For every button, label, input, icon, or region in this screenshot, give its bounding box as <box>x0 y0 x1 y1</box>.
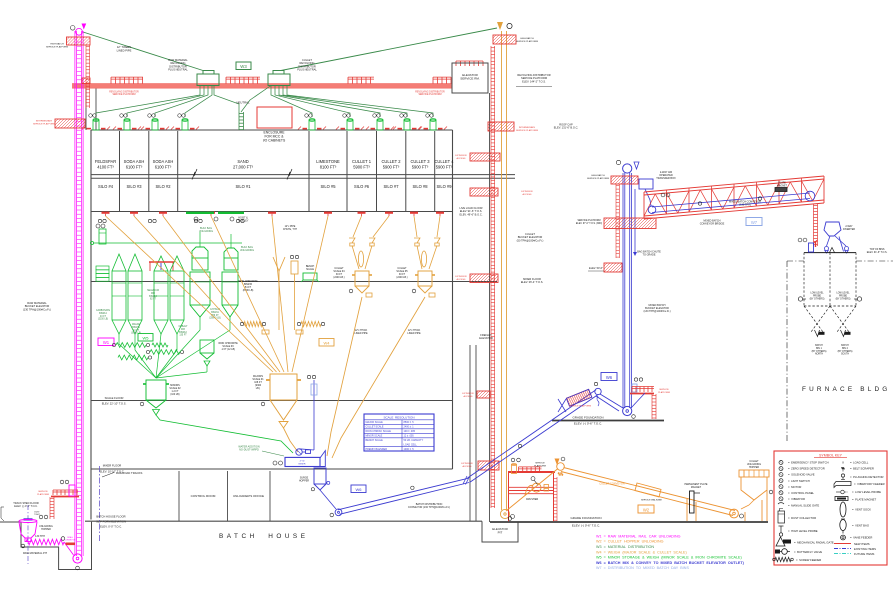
svg-text:2400 ± .1: 2400 ± .1 <box>404 426 415 429</box>
silo bin vent filters <box>93 120 99 130</box>
svg-text:(BY OTHERS): (BY OTHERS) <box>812 351 827 353</box>
head chute to elevator boot <box>600 394 623 408</box>
svg-text:PLUS NEUTRAL: PLUS NEUTRAL <box>168 68 188 72</box>
svg-text:CONVEYOR: CONVEYOR <box>65 540 76 542</box>
grade line at cullet conveyor <box>490 521 768 523</box>
12in pipe from cullet elevator <box>281 28 497 71</box>
svg-text:SERVICE: SERVICE <box>38 491 48 493</box>
conveyor service walkway <box>635 483 661 497</box>
minor bin 11 welfe <box>128 254 142 271</box>
svg-text:= VIBRATOR: = VIBRATOR <box>788 497 805 501</box>
svg-text:LIMESTONE: LIMESTONE <box>316 159 340 164</box>
vent sock on cullet scale 4 <box>358 251 363 267</box>
elevator service platform 97ft <box>604 218 656 229</box>
svg-text:SERVICE PLATFORM: SERVICE PLATFORM <box>418 93 441 96</box>
surge hopper <box>314 468 326 484</box>
svg-text:HIGH BATCH: HIGH BATCH <box>520 37 534 40</box>
iron chromite bin 15 from bulk bag 2 <box>222 272 238 305</box>
raw distributor chute fan <box>96 86 239 118</box>
svg-text:MAGNET: MAGNET <box>777 184 788 187</box>
svg-text:HIGH BATCH: HIGH BATCH <box>50 43 64 46</box>
svg-text:SERVICE PLATFORM: SERVICE PLATFORM <box>516 129 538 132</box>
svg-text:MIX: MIX <box>181 329 186 331</box>
unloading hopper <box>19 520 37 523</box>
svg-text:= EMERGENCY STOP SWITCH: = EMERGENCY STOP SWITCH <box>788 461 829 465</box>
svg-text:PROBE: PROBE <box>839 295 848 297</box>
svg-text:SILO #8: SILO #8 <box>412 184 428 189</box>
svg-text:SODA ASH: SODA ASH <box>124 159 145 164</box>
svg-text:= VENT SOCK: = VENT SOCK <box>852 508 871 512</box>
svg-text:SCALE: SCALE <box>306 268 314 271</box>
svg-text:SLIP FORM ELEVATION: SLIP FORM ELEVATION <box>96 520 126 524</box>
svg-text:TO GRADE: TO GRADE <box>642 254 655 257</box>
control room walls <box>178 471 180 521</box>
svg-text:BIN 1: BIN 1 <box>816 348 822 350</box>
svg-text:W4 = WEIGH (MAJOR SCALE &: W4 = WEIGH (MAJOR SCALE & CULLET SCALE) <box>596 550 687 554</box>
grade line at mixed batch elevator <box>552 420 664 422</box>
svg-text:= SCREW FEEDER: = SCREW FEEDER <box>796 558 821 562</box>
svg-text:= BELT SCRAPER: = BELT SCRAPER <box>850 467 874 471</box>
svg-text:HIGH BATCH: HIGH BATCH <box>591 174 605 177</box>
bulk bag monorail <box>186 212 214 214</box>
svg-text:BIN#11: BIN#11 <box>211 312 219 314</box>
W7 distribution tag <box>746 218 762 226</box>
svg-text:CARBONATE: CARBONATE <box>96 309 111 312</box>
svg-text:CHUTE, TYP: CHUTE, TYP <box>283 228 298 231</box>
svg-text:(BY OTHERS): (BY OTHERS) <box>810 298 825 300</box>
svg-text:BIN#13: BIN#13 <box>149 296 157 298</box>
mixed batch conveyor bridge truss <box>644 176 824 219</box>
svg-text:SCALE FLOOR: SCALE FLOOR <box>105 396 124 400</box>
svg-text:I/O CABINETS: I/O CABINETS <box>263 139 286 143</box>
svg-text:W3 = MATERIAL DISTRIBUTION: W3 = MATERIAL DISTRIBUTION <box>596 545 654 549</box>
svg-text:UNLOADING: UNLOADING <box>39 525 53 528</box>
svg-text:(130 TPH@100#/Cu.Ft.): (130 TPH@100#/Cu.Ft.) <box>23 307 51 311</box>
svg-text:LINED PIPE: LINED PIPE <box>354 332 368 335</box>
revolving distributor service platform band <box>72 84 452 89</box>
svg-text:(BY OTHERS): (BY OTHERS) <box>836 298 851 300</box>
svg-text:= VIBRATORY FEEDER: = VIBRATORY FEEDER <box>854 482 885 486</box>
silo outlet slide gates <box>102 213 445 216</box>
surge cylinder <box>291 261 298 274</box>
diverter chute into bin 2 <box>839 237 844 252</box>
svg-text:PREMIX BLENDER: PREMIX BLENDER <box>366 448 388 451</box>
crusher chute to elevator boot <box>506 469 558 512</box>
svg-text:CULLET CONVEYOR: CULLET CONVEYOR <box>599 482 625 486</box>
svg-text:BIN#11: BIN#11 <box>132 327 140 329</box>
batch bin hoppers dashed <box>804 306 823 332</box>
svg-text:SERVICE: SERVICE <box>659 389 669 391</box>
svg-text:SODA ASH: SODA ASH <box>153 159 174 164</box>
svg-text:ELEV. (-) 0'-6" T.O.C.: ELEV. (-) 0'-6" T.O.C. <box>14 505 38 508</box>
svg-text:SILO #3: SILO #3 <box>126 184 142 189</box>
east wall at cullet elevator <box>489 93 491 522</box>
svg-text:MIX: MIX <box>151 293 156 295</box>
svg-text:ACCESS: ACCESS <box>457 157 467 160</box>
svg-text:8100 FT³: 8100 FT³ <box>320 165 337 170</box>
svg-text:W4: W4 <box>324 340 331 345</box>
majors discharge to mixer <box>284 428 299 452</box>
minor feed lines to scale <box>119 330 230 378</box>
svg-text:EXTERIOR: EXTERIOR <box>455 276 467 278</box>
svg-text:RAW MATERIAL PIT: RAW MATERIAL PIT <box>23 551 48 555</box>
batch distribution conveyor steep flight <box>468 390 597 478</box>
elevator pit outline <box>482 521 518 542</box>
cullet conveyor legs <box>686 499 688 521</box>
svg-text:EXTERIOR: EXTERIOR <box>462 393 474 395</box>
bulk bag unloader 1 <box>192 247 208 258</box>
svg-text:SOUTH: SOUTH <box>841 354 849 356</box>
conveyor head drive <box>566 389 591 406</box>
svg-text:SERVICE PLATFORM: SERVICE PLATFORM <box>516 40 538 43</box>
svg-text:ELEV. 91'-6" T.O.S.: ELEV. 91'-6" T.O.S. <box>867 251 888 254</box>
svg-text:ELEV. 50'-6": ELEV. 50'-6" <box>589 267 603 270</box>
svg-text:5900 FT³: 5900 FT³ <box>436 165 453 170</box>
svg-text:ELEV. (-) 0'-6" T.O.C.: ELEV. (-) 0'-6" T.O.C. <box>572 524 600 528</box>
svg-text:= VENT BAG: = VENT BAG <box>852 524 869 528</box>
batch house building outline and floors <box>85 88 515 521</box>
svg-text:(130 TPH): (130 TPH) <box>739 204 751 207</box>
cullet scale 4 <box>355 271 369 286</box>
svg-text:= MECHANICAL RADIAL GATE: = MECHANICAL RADIAL GATE <box>794 541 834 545</box>
svg-text:X: X <box>842 461 844 465</box>
svg-text:100 ± .005: 100 ± .005 <box>404 430 416 433</box>
svg-text:SERVICE PLATFORM: SERVICE PLATFORM <box>46 45 68 48</box>
batch distribution conveyor shallow flight <box>320 490 336 509</box>
svg-text:W2 = CULLET HOPPER UNLOADI: W2 = CULLET HOPPER UNLOADING <box>596 540 664 544</box>
elevator service room <box>452 63 488 93</box>
blue probe cylinder at bin top <box>809 243 814 252</box>
svg-text:W7: W7 <box>751 220 758 225</box>
svg-text:PLATFORM: PLATFORM <box>37 493 49 496</box>
svg-text:WELFE: WELFE <box>132 324 140 326</box>
cullet scale discharge pipes <box>327 297 362 456</box>
W4 weigh tag <box>319 339 334 347</box>
dust collection header <box>93 242 242 244</box>
svg-text:6100 FT³: 6100 FT³ <box>155 165 172 170</box>
bin vibratory feeders <box>815 330 820 337</box>
vent bags at bin tops <box>825 247 829 251</box>
svg-text:ELEV. 22'-10" T.O.S.: ELEV. 22'-10" T.O.S. <box>102 401 127 405</box>
W3 material distribution tag <box>236 62 251 70</box>
cullet conveyor belt <box>564 468 736 511</box>
work phase notes <box>596 534 745 570</box>
freight elevator shaft walls <box>469 345 471 521</box>
svg-text:ACCESS: ACCESS <box>463 465 473 468</box>
svg-text:W5: W5 <box>143 335 150 340</box>
svg-text:43 FT: 43 FT <box>133 330 140 332</box>
svg-text:SCALE RESOLUTION: SCALE RESOLUTION <box>383 416 414 420</box>
svg-text:PROBE: PROBE <box>813 295 822 297</box>
svg-text:GYPSUM: GYPSUM <box>210 309 220 311</box>
high batch service platform on elevator <box>611 176 638 184</box>
cullet elevator service ladder <box>490 46 492 508</box>
live load floor break marks <box>192 169 197 180</box>
svg-text:ELEVATOR: ELEVATOR <box>479 336 493 340</box>
M5 minors tag <box>138 334 153 342</box>
svg-text:TRANSFER BOX: TRANSFER BOX <box>656 177 676 180</box>
cullet bucket elevator chute <box>501 31 503 510</box>
svg-text:= CONTROL PANEL: = CONTROL PANEL <box>788 491 815 495</box>
svg-text:1000 ± .5: 1000 ± .5 <box>404 448 415 451</box>
svg-text:CRUSHER: CRUSHER <box>526 498 539 501</box>
svg-text:LINED PIPE: LINED PIPE <box>117 48 132 52</box>
svg-text:MIXER FLOOR: MIXER FLOOR <box>103 464 122 468</box>
svg-text:MAGNET: MAGNET <box>691 486 702 489</box>
dust collector <box>99 229 106 244</box>
boot service platform <box>632 386 654 388</box>
svg-text:CONVEYOR BRIDGE: CONVEYOR BRIDGE <box>700 223 725 226</box>
svg-text:62 FT: 62 FT <box>150 299 157 301</box>
2-way air operated transfer box <box>639 179 653 189</box>
gypsum bin from bulk bag 1 <box>190 272 210 305</box>
bellows stack <box>96 266 109 281</box>
crusher <box>532 483 541 492</box>
cullet distributor chute fan <box>241 86 433 118</box>
svg-text:TIGHT: TIGHT <box>34 514 41 516</box>
bin section lines <box>112 282 126 284</box>
svg-text:.1 FT (12 LB): .1 FT (12 LB) <box>221 348 235 351</box>
major screw feeders <box>244 321 262 326</box>
svg-text:PLUS NEUTRAL: PLUS NEUTRAL <box>297 68 317 72</box>
dust cylinder on crusher platform <box>512 465 517 474</box>
platform railings <box>111 76 143 78</box>
bin top inlet triangle <box>830 248 835 253</box>
svg-text:EXTERIOR: EXTERIOR <box>461 463 473 465</box>
svg-text:ELEV. 131'-6" B.O.C.: ELEV. 131'-6" B.O.C. <box>554 126 579 130</box>
svg-text:GRADE FOUNDATION: GRADE FOUNDATION <box>570 516 601 520</box>
cullet conveyor tail pulley <box>730 509 739 518</box>
svg-text:W6: W6 <box>606 375 613 380</box>
svg-text:LOAD CELL: LOAD CELL <box>404 444 418 447</box>
svg-text:UNLOADING: UNLOADING <box>240 249 254 252</box>
W6 batch mix tag <box>351 485 366 493</box>
furnace building boundary line <box>787 260 804 262</box>
svg-text:SERVICE PLATFORM: SERVICE PLATFORM <box>112 93 135 96</box>
raw material pit outline <box>0 522 92 570</box>
cobalt mix bin 12 <box>170 256 184 271</box>
light blue probe by elevator <box>632 384 637 392</box>
svg-text:BATCH: BATCH <box>815 344 823 347</box>
svg-text:SILO #2: SILO #2 <box>155 184 171 189</box>
svg-text:EXTERIOR: EXTERIOR <box>521 191 533 193</box>
svg-text:12 ± .005: 12 ± .005 <box>404 435 415 438</box>
W1 raw material unloading tag <box>98 338 114 346</box>
svg-text:SILO #7: SILO #7 <box>383 184 399 189</box>
svg-text:EXTERIOR: EXTERIOR <box>455 155 467 157</box>
cullet elevator head <box>497 22 503 30</box>
svg-text:MAJOR SCALE: MAJOR SCALE <box>366 421 384 424</box>
high batch service platform left <box>67 37 91 45</box>
svg-text:ACCESS: ACCESS <box>464 395 474 398</box>
crusher support frame <box>508 471 555 473</box>
svg-text:W1 = RAW MATERIAL RAIL CA: W1 = RAW MATERIAL RAIL CAR UNLOADING <box>596 534 681 538</box>
svg-text:(130 TPH@100#/Cu.Ft.): (130 TPH@100#/Cu.Ft.) <box>643 310 670 313</box>
svg-text:SILO #4: SILO #4 <box>98 184 114 189</box>
scale resolution table <box>364 414 434 451</box>
low level probes <box>798 297 802 301</box>
svg-text:130 TPH: 130 TPH <box>35 535 45 538</box>
svg-text:(BY OTHERS): (BY OTHERS) <box>838 351 853 353</box>
svg-text:LINED PIPE: LINED PIPE <box>407 332 421 335</box>
svg-text:GRADE FOUNDATION: GRADE FOUNDATION <box>572 416 603 420</box>
svg-text:MIXER: MIXER <box>299 463 306 465</box>
svg-text:CONVEYOR (130 TPH@100#/Cu.Ft.): CONVEYOR (130 TPH@100#/Cu.Ft.) <box>408 506 450 509</box>
svg-text:SERVICE PLATFORM: SERVICE PLATFORM <box>33 122 55 125</box>
selenium mix bin 13 with premix frame <box>154 256 168 271</box>
12in tween lined pipe from raw elevator <box>83 32 203 71</box>
svg-text:CULLET 2: CULLET 2 <box>381 159 401 164</box>
svg-text:= LIMIT SWITCH: = LIMIT SWITCH <box>788 479 810 483</box>
svg-text:4 YD: 4 YD <box>300 461 305 463</box>
svg-text:HOPPER: HOPPER <box>749 466 759 469</box>
raw material bucket elevator tower <box>75 31 83 556</box>
svg-text:ELEV. 97'-0" T.O.S. (MIN): ELEV. 97'-0" T.O.S. (MIN) <box>576 223 602 225</box>
svg-text:PLATFORM: PLATFORM <box>534 464 546 467</box>
intermediate service platform <box>55 119 85 128</box>
major silo chutes to majors scale <box>106 216 329 372</box>
svg-text:PLATFORM: PLATFORM <box>658 391 670 394</box>
svg-text:SERVICE: SERVICE <box>535 463 545 465</box>
svg-text:5900 FT³: 5900 FT³ <box>383 165 400 170</box>
svg-text:ELEV. 10'-10" T.O.C.: ELEV. 10'-10" T.O.C. <box>100 470 125 474</box>
cullet silo chutes to scale 4 <box>353 216 362 237</box>
svg-text:NEW ITEMS: NEW ITEMS <box>854 542 870 546</box>
svg-text:SERVICE PLATFORM: SERVICE PLATFORM <box>587 177 609 180</box>
svg-text:BIN#14: BIN#14 <box>99 313 107 315</box>
railing under roof right <box>456 60 483 62</box>
raw elevator boot <box>73 554 82 563</box>
svg-text:ELEV. 144'-2" T.O.S.: ELEV. 144'-2" T.O.S. <box>522 79 546 83</box>
svg-text:(50 TPH@100#/Cu.Ft.): (50 TPH@100#/Cu.Ft.) <box>517 238 544 242</box>
batch day bins dashed outline <box>803 253 805 306</box>
svg-text:INTERMEDIATE: INTERMEDIATE <box>519 126 536 129</box>
bench scale <box>303 273 317 280</box>
svg-text:27,000 FT³: 27,000 FT³ <box>233 165 254 170</box>
svg-text:W3: W3 <box>240 64 247 69</box>
svg-text:PIT: PIT <box>498 531 503 535</box>
svg-text:(2150 LB): (2150 LB) <box>98 319 108 321</box>
cullet elevator boot <box>500 509 509 518</box>
svg-text:SYMBOL KEY: SYMBOL KEY <box>819 453 843 457</box>
cullet scale 5 <box>418 271 432 286</box>
svg-text:SILO #1: SILO #1 <box>235 184 251 189</box>
svg-text:UNLOADING: UNLOADING <box>199 230 213 233</box>
svg-text:SELENIUM: SELENIUM <box>147 290 159 292</box>
svg-text:W5 = MINOR STORAGE & WEIG: W5 = MINOR STORAGE & WEIGH (MINOR SCALE … <box>596 556 742 560</box>
minor screw feeders <box>116 343 146 348</box>
majors scale 1 <box>270 374 297 400</box>
svg-text:BIN#12: BIN#12 <box>179 332 187 334</box>
iron chromite scale 3 <box>200 340 214 353</box>
svg-text:= ZERO SPEED DETECTOR: = ZERO SPEED DETECTOR <box>788 467 825 471</box>
svg-text:CULLET 3: CULLET 3 <box>410 159 430 164</box>
svg-text:SERVICE WALKWAY: SERVICE WALKWAY <box>641 499 663 502</box>
svg-text:8500 ± .5: 8500 ± .5 <box>404 421 415 424</box>
mixed batch elevator head pulley <box>623 164 632 173</box>
svg-text:5900 FT³: 5900 FT³ <box>353 165 370 170</box>
enclosure for MCC <box>257 107 292 128</box>
track hopper screw conveyor <box>26 539 64 545</box>
svg-text:= HIGH LEVEL PROBE: = HIGH LEVEL PROBE <box>788 529 818 533</box>
svg-text:ELEV. 36'-4" T.O.S.: ELEV. 36'-4" T.O.S. <box>521 280 544 284</box>
batch day bin tops <box>804 252 856 254</box>
svg-text:ELEV. (-) 0'-6" T.O.C.: ELEV. (-) 0'-6" T.O.C. <box>574 422 602 426</box>
svg-text:= DUST COLLECTOR: = DUST COLLECTOR <box>788 516 816 520</box>
svg-text:SERVICE PLATFORM: SERVICE PLATFORM <box>577 219 600 222</box>
svg-text:(2400 LB.): (2400 LB.) <box>396 276 407 279</box>
mixed batch elevator boot <box>623 406 632 415</box>
2-way diverter <box>824 222 841 236</box>
svg-text:W2: W2 <box>643 507 650 512</box>
svg-text:W6: W6 <box>356 487 363 492</box>
svg-text:HOPPER: HOPPER <box>299 480 309 483</box>
W2 cullet unloading tag <box>638 505 654 513</box>
raw material revolving distributor <box>197 74 219 86</box>
svg-text:= MANUAL SLIDE GATE: = MANUAL SLIDE GATE <box>788 504 819 508</box>
svg-text:SILO #6: SILO #6 <box>354 184 370 189</box>
svg-text:50 LB. CAPACITY: 50 LB. CAPACITY <box>404 439 424 442</box>
boot service platform <box>53 489 78 491</box>
access ladder beside tower <box>85 45 87 108</box>
svg-text:SERVICE RM.: SERVICE RM. <box>460 77 480 81</box>
svg-text:DIVERTER: DIVERTER <box>843 228 855 231</box>
svg-text:HOPPER: HOPPER <box>41 529 51 531</box>
cullet silo chutes to scale 5 <box>414 216 417 237</box>
red chute mark <box>815 241 817 247</box>
svg-text:W6 = BATCH MIX & CONVEY: W6 = BATCH MIX & CONVEY TO MIXED BATCH B… <box>596 561 745 565</box>
svg-text:= PLUGGING DETECTOR: = PLUGGING DETECTOR <box>850 475 884 479</box>
svg-text:LB.): LB.) <box>256 387 261 390</box>
water addition line <box>313 380 315 450</box>
W6 tag at elevator <box>601 373 617 381</box>
high batch service platform right <box>493 35 516 44</box>
svg-text:NEUTRAL: NEUTRAL <box>236 101 249 105</box>
head pulley of raw elevator <box>76 28 83 35</box>
svg-text:(2400 LB.): (2400 LB.) <box>333 276 344 279</box>
svg-text:SERVICE PLATFORM: SERVICE PLATFORM <box>569 405 591 408</box>
svg-text:= BUTTERFLY VALVE: = BUTTERFLY VALVE <box>794 550 822 554</box>
svg-text:BENCH SCALE: BENCH SCALE <box>366 439 384 442</box>
symbol key legend <box>773 451 887 565</box>
cullet conveyor head <box>555 459 560 466</box>
svg-text:REVOLVING DISTRIBUTOR: REVOLVING DISTRIBUTOR <box>415 91 445 93</box>
track centerline through hopper <box>27 505 29 564</box>
svg-text:CULLET 1: CULLET 1 <box>352 159 372 164</box>
svg-text:CULLET 4: CULLET 4 <box>434 159 454 164</box>
svg-text:BATCH: BATCH <box>841 344 849 347</box>
svg-text:ELEV. 0'-0" T.O.C.: ELEV. 0'-0" T.O.C. <box>100 525 122 529</box>
svg-text:(100 LB): (100 LB) <box>170 393 179 396</box>
roof slide gate marks <box>101 128 106 130</box>
svg-text:= VANE FEEDER: = VANE FEEDER <box>850 536 872 540</box>
minor bin 14 carbonate <box>112 254 126 271</box>
svg-text:NO-DUST-WRPD: NO-DUST-WRPD <box>239 449 259 452</box>
svg-text:135 FT: 135 FT <box>179 335 187 337</box>
mixed batch bucket elevator casing <box>622 173 624 408</box>
svg-text:CONTROL ROOM: CONTROL ROOM <box>191 494 216 498</box>
svg-text:MINOR SCALE: MINOR SCALE <box>366 435 383 438</box>
vent sock on cullet scale 5 <box>421 251 426 267</box>
svg-text:4100 FT³: 4100 FT³ <box>97 165 114 170</box>
svg-text:= LOW LEVEL PROBE: = LOW LEVEL PROBE <box>852 490 881 494</box>
svg-text:REVOLVING DISTRIBUTOR: REVOLVING DISTRIBUTOR <box>109 91 139 93</box>
silo divider walls <box>120 131 435 212</box>
svg-text:INTERMEDIATE: INTERMEDIATE <box>36 120 53 123</box>
svg-text:ACCESS: ACCESS <box>457 278 467 281</box>
svg-text:CULLET SCALE: CULLET SCALE <box>366 426 384 429</box>
railroad track centerline <box>99 466 101 541</box>
